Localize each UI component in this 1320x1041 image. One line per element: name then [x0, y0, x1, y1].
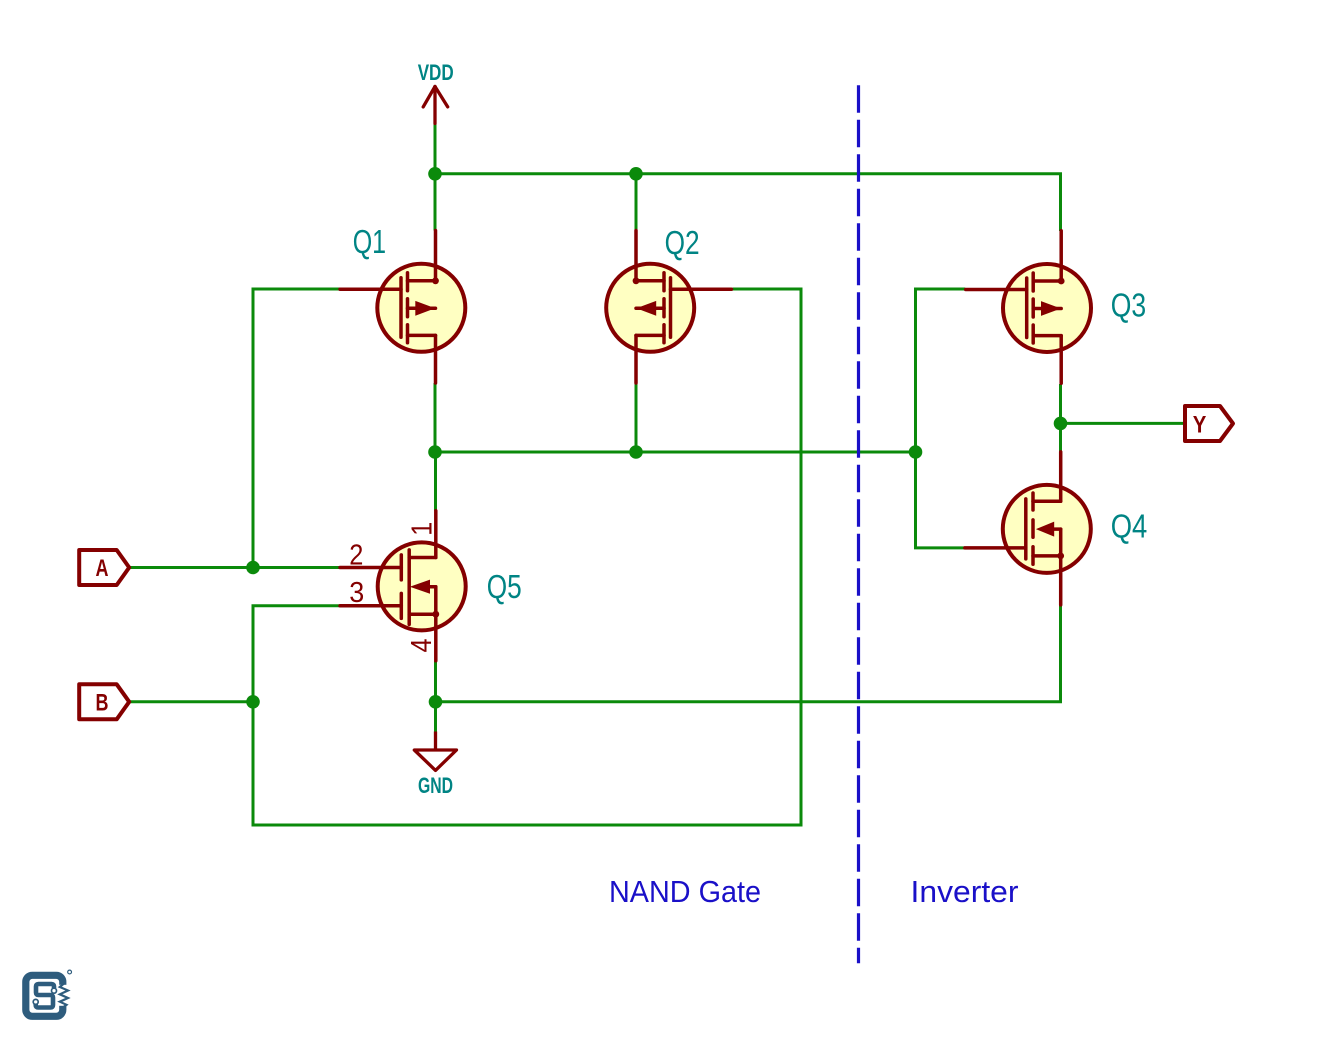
svg-text:Q1: Q1: [353, 223, 386, 260]
svg-text:Y: Y: [1193, 411, 1207, 438]
junction mid-Q2: [629, 445, 643, 459]
wire mid rail: [435, 451, 916, 454]
wire Q5 pin1 to mid rail: [434, 452, 437, 511]
transistor Q3 (PMOS): [966, 231, 1091, 384]
svg-text:NAND Gate: NAND Gate: [609, 874, 761, 909]
junction Y: [1054, 417, 1068, 431]
junction A: [246, 561, 260, 575]
power VDD: [423, 87, 448, 124]
ground GND: [414, 732, 456, 771]
svg-text:Q2: Q2: [665, 224, 700, 261]
wire GND node stub: [434, 702, 437, 732]
junction VDD-Q1: [428, 167, 442, 181]
svg-text:4: 4: [406, 639, 438, 653]
junction VDD-Q2: [629, 167, 643, 181]
svg-text:GND: GND: [418, 773, 453, 798]
wire B to junction: [129, 700, 254, 703]
junction GND: [429, 695, 443, 709]
wire Y node to label: [1061, 422, 1186, 425]
wire Q3 source to Y node: [1059, 384, 1062, 423]
wire Q1 source to mid node: [434, 383, 437, 452]
label A: [79, 550, 129, 585]
wire mid rail to Q4 gate: [916, 452, 965, 548]
transistor Q1 (PMOS): [340, 230, 465, 383]
svg-text:VDD: VDD: [418, 60, 454, 85]
wire A junction to Q5 pin2: [253, 566, 340, 569]
logo: [26, 970, 72, 1016]
wire VDD rail: [435, 174, 1061, 231]
svg-text:3: 3: [349, 577, 364, 609]
svg-text:Q3: Q3: [1111, 287, 1146, 324]
wire GND row to Q4 source: [436, 605, 1061, 702]
svg-text:Inverter: Inverter: [911, 874, 1019, 909]
junction mid-right: [909, 445, 923, 459]
label B: [79, 684, 129, 719]
transistor Q2 (PMOS, mirrored): [606, 230, 731, 383]
svg-text:Q4: Q4: [1111, 508, 1148, 545]
wire B junction loop to Q2 gate: [253, 289, 801, 825]
wire mid rail to Q3 gate: [916, 289, 966, 452]
wire A junction up to Q1 gate: [253, 289, 340, 568]
transistor Q5 (dual-gate NMOS): [340, 511, 466, 661]
wire B junction up to Q5 pin3: [253, 606, 340, 702]
wire A to junction: [129, 566, 253, 569]
wire Q2 source to mid rail: [635, 384, 638, 452]
junction mid-Q1: [428, 445, 442, 459]
wire Y node to Q4 drain: [1059, 423, 1062, 452]
wire Q5 pin4 to GND node: [434, 661, 437, 702]
svg-text:2: 2: [349, 540, 363, 572]
wire Q2 drain to VDD rail: [635, 174, 638, 231]
junction B: [246, 695, 260, 709]
svg-text:A: A: [96, 555, 109, 582]
wire VDD stub to Q1 drain: [434, 124, 437, 231]
label Y: [1185, 406, 1233, 441]
svg-text:Q5: Q5: [487, 568, 522, 605]
divider dashed line: [857, 85, 860, 963]
transistor Q4 (NMOS): [965, 452, 1091, 605]
svg-text:1: 1: [407, 522, 439, 536]
svg-text:B: B: [96, 689, 109, 716]
